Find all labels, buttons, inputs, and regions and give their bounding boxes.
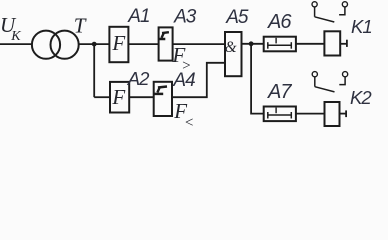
wire node down <box>93 44 95 97</box>
time element A6 delay symbol <box>268 38 292 49</box>
threshold A4 hysteresis symbol <box>154 87 167 94</box>
threshold A3 box <box>159 27 173 60</box>
svg-text:K1: K1 <box>351 16 372 37</box>
wire input <box>0 43 33 45</box>
wire A3 to A5 <box>173 43 224 45</box>
svg-text:A2: A2 <box>127 68 150 89</box>
svg-text:A4: A4 <box>172 70 195 91</box>
junction node <box>92 42 97 47</box>
wire node to A2 <box>94 96 110 98</box>
contact K1 <box>312 2 348 22</box>
wire A2 to A4 <box>129 96 154 98</box>
filter A2 box <box>110 82 129 113</box>
filter A1 box <box>109 27 128 62</box>
svg-text:A6: A6 <box>267 11 292 33</box>
wire A1 to A3 <box>128 43 159 45</box>
transformer T secondary winding <box>51 31 79 59</box>
contact K2 <box>312 72 348 92</box>
wire transformer to node <box>79 43 110 45</box>
time element A7 delay symbol <box>268 108 292 119</box>
threshold A3 hysteresis symbol <box>159 32 169 39</box>
svg-text:K2: K2 <box>350 87 372 108</box>
wire A6 to K1 <box>296 43 325 45</box>
AND gate A5 box <box>225 32 242 76</box>
wire node down to A7 <box>251 44 264 114</box>
svg-text:F: F <box>111 31 125 55</box>
svg-text:F: F <box>111 85 125 109</box>
svg-text:A3: A3 <box>173 7 197 28</box>
relay K1 coil box <box>324 31 340 55</box>
relay K1 output stub <box>340 43 347 45</box>
threshold A4 box <box>154 82 172 116</box>
svg-text:A1: A1 <box>127 6 149 27</box>
time element A7 box <box>264 107 296 122</box>
relay K2 coil box <box>325 102 340 126</box>
svg-text:<: < <box>184 115 194 131</box>
wire A5 to node <box>242 43 264 45</box>
wire A7 to K2 <box>296 113 325 115</box>
svg-text:A5: A5 <box>225 7 249 28</box>
transformer T primary winding <box>32 31 60 59</box>
svg-text:К: К <box>10 29 21 44</box>
svg-text:&: & <box>225 39 237 56</box>
svg-text:A7: A7 <box>267 81 292 103</box>
wire A4 to A5 riser <box>172 63 225 97</box>
svg-text:T: T <box>74 14 87 38</box>
time element A6 box <box>264 37 296 52</box>
junction node after A5 <box>249 41 254 46</box>
relay K2 output stub <box>340 113 347 115</box>
